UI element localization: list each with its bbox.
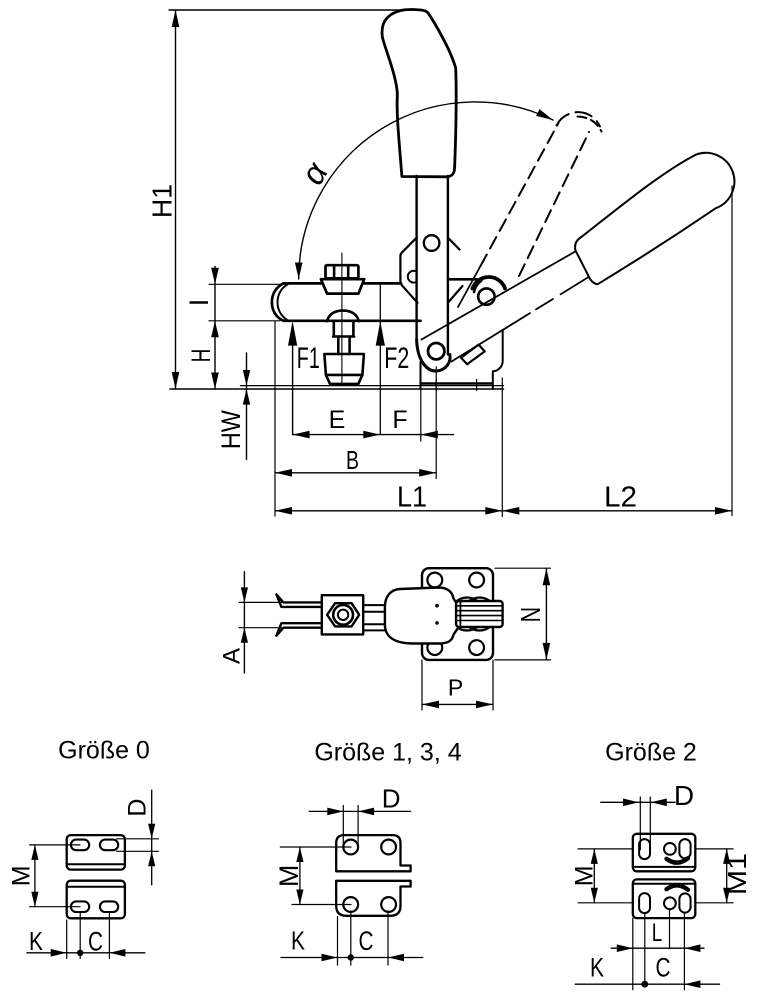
svg-text:D: D [382, 784, 401, 814]
g0 upper plate [67, 835, 125, 870]
bell dot lower [435, 621, 439, 625]
spindle neck [338, 337, 349, 355]
hex nut [326, 265, 359, 278]
g0 lower plate [67, 881, 125, 919]
E arrow left [293, 431, 310, 439]
g0 dimension M line [34, 845, 36, 907]
svg-text:E: E [329, 406, 346, 434]
clamping foot [324, 354, 364, 384]
pivot pin [428, 343, 444, 359]
g1 D extension lines [343, 806, 358, 847]
L2 arrow left [502, 507, 519, 515]
g2 upper circle [664, 843, 676, 855]
svg-text:H: H [186, 349, 216, 363]
stop block [461, 345, 485, 365]
hex nut top view [327, 603, 359, 626]
pivot boss circle right [463, 598, 496, 631]
handle grip open [575, 153, 734, 284]
g2 lower plate [633, 879, 696, 918]
P arrow left [422, 701, 439, 709]
extension line handle open end [731, 186, 733, 516]
g0 M arrow up [31, 845, 38, 860]
g2 dimension M line [593, 849, 595, 903]
plate hole top left [427, 573, 442, 588]
g2 lower slot left [639, 893, 650, 913]
plate hole bottom right [469, 640, 484, 655]
g2 M1 arrow up [723, 849, 730, 864]
link head arc [473, 277, 506, 288]
open lever upper edge [422, 252, 575, 340]
N arrow down [543, 643, 551, 660]
g1 M arrow down [296, 890, 303, 905]
g2 upper plate [633, 834, 696, 872]
dimension P line [422, 703, 493, 705]
g0 slot lower left [71, 901, 89, 912]
g0 KC extension lines [67, 913, 110, 959]
g1 center dot [348, 954, 354, 960]
svg-text:HW: HW [216, 410, 246, 449]
g0 D arrow down [148, 824, 155, 839]
g2 upper slot right [679, 839, 690, 858]
svg-text:P: P [448, 675, 463, 701]
rod lines left [363, 605, 385, 630]
clamp arm left end inner arc [278, 285, 288, 321]
P arrow right [476, 701, 493, 709]
g2 upper slot left [639, 839, 650, 859]
svg-text:N: N [515, 607, 546, 623]
A arrow up [241, 628, 248, 643]
g1 lower plate [336, 881, 410, 916]
g0 D extension lines [117, 839, 159, 852]
g1 M arrow up [296, 847, 303, 862]
g0 dimension KC line [27, 952, 145, 954]
arm edge right of shaft [448, 278, 477, 281]
spindle collar [321, 279, 364, 293]
g0 slot upper right [100, 840, 118, 851]
svg-text:Größe 2: Größe 2 [605, 739, 697, 767]
F arrow [421, 431, 438, 439]
I arrow down [211, 268, 219, 285]
extension lines fork [239, 602, 282, 627]
clamp arm bottom edge [284, 319, 421, 322]
plate hole top right [469, 573, 484, 588]
g2 lower slot right [679, 893, 690, 912]
hex washer circle [333, 605, 353, 625]
g0 center dot [77, 950, 83, 956]
g2 L arrow left [617, 944, 633, 952]
svg-text:K: K [291, 926, 306, 956]
svg-text:C: C [359, 926, 374, 956]
g1 K arrow [322, 954, 338, 962]
rod cap line [459, 601, 461, 627]
clamp arm top edge [284, 282, 402, 285]
H1 arrow down [172, 372, 180, 389]
shaft hole [424, 235, 440, 251]
g1 upper plate [336, 835, 410, 871]
dimension line B [275, 472, 436, 474]
g2 lower circle [664, 897, 676, 909]
plate hole bottom left [427, 640, 442, 655]
g1 dimension D line [309, 810, 411, 812]
intermediate lever cap outer [557, 112, 601, 126]
g2 lower plate line [633, 883, 696, 885]
dimension line E F [293, 434, 454, 436]
g2 lower crescent [667, 885, 689, 889]
g0 D arrow up [148, 851, 155, 866]
g2 dimension L line [611, 947, 704, 949]
svg-text:K: K [590, 952, 604, 982]
svg-text:L: L [652, 919, 663, 947]
mounting bracket left [400, 238, 417, 303]
g1 hole lower right [381, 897, 396, 912]
g2 dimension M1 line [726, 849, 728, 903]
H1 arrow up [172, 10, 180, 27]
svg-text:L1: L1 [397, 482, 427, 514]
hex block [322, 595, 363, 634]
ground baseline [170, 388, 504, 390]
head slope segment [458, 266, 481, 307]
rod knurl lines [456, 606, 503, 621]
bracket hole [408, 271, 416, 283]
force line F1 [292, 345, 294, 435]
svg-text:B: B [346, 445, 359, 475]
svg-text:Größe 1, 3, 4: Größe 1, 3, 4 [314, 739, 461, 767]
g0 C arrow [109, 949, 125, 957]
alpha arrow bottom [295, 263, 303, 280]
svg-text:M: M [274, 865, 304, 888]
dimension H1 line [175, 10, 177, 389]
handle grip closed [382, 9, 456, 176]
svg-text:F: F [392, 406, 407, 434]
extension line base left [420, 389, 422, 441]
hex stud circle [338, 610, 348, 620]
g2 M1 arrow down [723, 888, 730, 903]
g2 M1 extension lines [695, 849, 733, 903]
g2 M arrow up [591, 849, 598, 864]
g0 upper plate line [67, 863, 125, 865]
g2 D extension lines [640, 797, 650, 850]
pivot boss circle left [451, 598, 484, 631]
g2 L extension lines [633, 909, 685, 990]
g1 hole upper right [381, 840, 396, 855]
dimension I/H line [214, 267, 216, 390]
g2 dimension D line [601, 801, 675, 803]
g1 dimension KC line [281, 957, 423, 959]
g2 center dot [641, 981, 648, 988]
open lever lower edge end [561, 277, 589, 295]
L2 arrow right [715, 507, 732, 515]
workpiece line [241, 385, 504, 387]
g0 slot upper left [71, 840, 89, 851]
svg-text:K: K [29, 926, 44, 956]
g2 D arrow left [623, 799, 639, 807]
fork prong lower [276, 623, 321, 636]
force line F2 [379, 284, 381, 435]
g2 D arrow right [651, 799, 667, 807]
g1 KC extension lines [338, 911, 389, 965]
lever shaft round end [417, 340, 450, 372]
g1 D arrow right [358, 808, 374, 816]
H arrow down [211, 373, 219, 390]
g1 M extension lines [280, 847, 351, 905]
svg-text:M: M [8, 865, 36, 886]
dimension A line [243, 572, 245, 673]
g0 slot lower right [100, 901, 118, 912]
g2 upper plate line [633, 866, 696, 868]
extension line pivot [435, 367, 437, 479]
base flange line [421, 382, 492, 384]
spindle block [333, 322, 354, 336]
svg-text:M1: M1 [722, 853, 752, 895]
svg-text:α: α [293, 155, 335, 191]
svg-text:F1: F1 [297, 342, 320, 375]
extension line top (handle apex) [169, 9, 413, 11]
base plate top view [422, 568, 493, 660]
extension line arm left end [274, 322, 276, 517]
L1 arrow right [485, 507, 502, 515]
link head pin [478, 288, 494, 304]
svg-text:C: C [656, 952, 671, 982]
svg-text:Größe 0: Größe 0 [58, 737, 150, 765]
bell dot upper [435, 604, 439, 608]
clamp body bell [385, 588, 462, 644]
extension lines P [422, 660, 493, 710]
g2 L arrow right [684, 944, 700, 952]
alpha arrow top [536, 109, 553, 120]
alpha arc [299, 102, 553, 279]
B arrow right [419, 469, 436, 477]
L1 arrow left [275, 507, 292, 515]
svg-text:D: D [674, 780, 694, 811]
F2 arrow [376, 321, 385, 346]
fork prong upper [276, 594, 321, 607]
spherical washer dome [327, 311, 359, 322]
svg-text:D: D [123, 799, 151, 817]
g0 K arrow [51, 949, 67, 957]
lever shaft edges [417, 176, 448, 355]
svg-text:H1: H1 [147, 184, 178, 218]
extension line base right [501, 378, 503, 517]
extension lines N [495, 568, 551, 660]
HW arrow up [243, 389, 250, 405]
base left edge [420, 362, 422, 389]
head inner arc [474, 281, 482, 293]
g1 D arrow left [327, 808, 343, 816]
svg-text:L2: L2 [604, 482, 637, 514]
g0 M extension lines [30, 845, 80, 907]
g1 hole lower left [343, 897, 358, 912]
intermediate lever left edge dashed [481, 123, 559, 266]
svg-text:F2: F2 [384, 342, 409, 375]
g2 dimension KC line [575, 983, 719, 985]
intermediate lever right edge dashed [519, 132, 589, 276]
g1 C arrow [388, 954, 404, 962]
hex nut facets [334, 265, 348, 278]
svg-text:C: C [88, 926, 103, 956]
svg-text:A: A [218, 648, 245, 664]
clamp arm left end cap [272, 283, 284, 320]
F1 arrow [288, 321, 297, 346]
g2 upper crescent [667, 858, 689, 862]
spindle center line [341, 253, 343, 385]
open lever lower edge solid [452, 313, 531, 361]
g1 hole upper left [343, 840, 358, 855]
g2 M arrow down [591, 888, 598, 903]
A arrow down [241, 587, 248, 602]
svg-text:M: M [570, 865, 598, 886]
g2 C arrow [684, 980, 700, 988]
g1 dimension M line [299, 847, 301, 905]
dimension N line [545, 568, 547, 660]
E arrow right [363, 431, 380, 439]
dimension line L1 L2 [275, 510, 732, 512]
g0 M arrow down [31, 892, 38, 907]
svg-text:I: I [184, 299, 214, 307]
base right edge [493, 331, 503, 390]
extension line arm bottom [209, 320, 280, 322]
intermediate lever cap inner [578, 117, 602, 132]
g0 dimension D line [151, 790, 153, 885]
extension line arm top [209, 283, 280, 285]
HW arrow down [243, 370, 250, 386]
handle rod top view [456, 601, 503, 627]
B arrow left [275, 469, 292, 477]
N arrow up [543, 568, 551, 585]
g2 M extension lines [578, 849, 633, 903]
g0 lower plate line [67, 886, 125, 888]
mounting bracket right [448, 238, 463, 302]
dimension HW line [246, 353, 248, 460]
open lever lower edge dashes [536, 299, 553, 309]
flange tick marks [436, 380, 476, 391]
H arrow up [211, 321, 219, 338]
